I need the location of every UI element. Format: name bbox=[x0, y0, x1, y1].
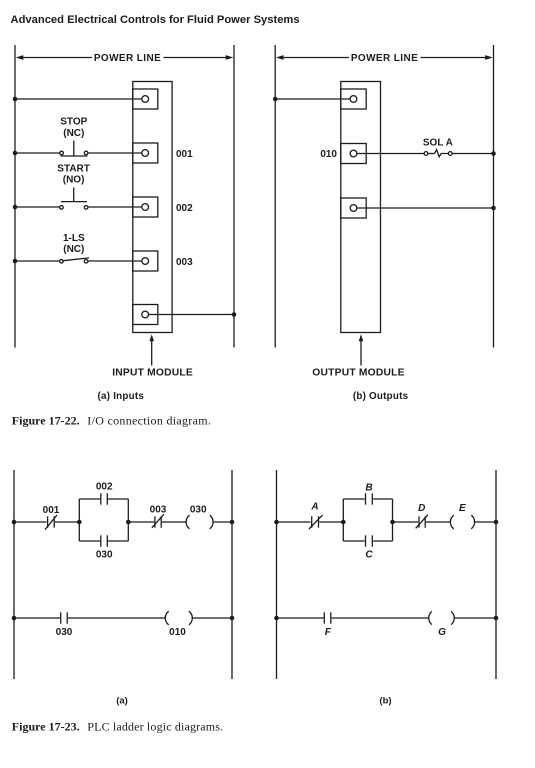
branch top wire right bbox=[108, 498, 128, 500]
terminal circle row0 bbox=[142, 96, 149, 103]
branch bottom wire right b bbox=[373, 540, 392, 542]
svg-text:001: 001 bbox=[176, 149, 193, 160]
junction dot branch right b bbox=[390, 520, 395, 525]
junction dot out1 bbox=[491, 151, 496, 156]
svg-text:(b): (b) bbox=[379, 696, 391, 707]
svg-text:1-LS: 1-LS bbox=[63, 233, 85, 244]
svg-text:003: 003 bbox=[150, 505, 167, 516]
parallel branch left vertical bbox=[78, 499, 80, 541]
left power rail L1 (b) bbox=[274, 45, 276, 348]
wire coil G to right rail bbox=[454, 617, 496, 619]
svg-text:010: 010 bbox=[320, 149, 337, 160]
junction dot row2 bbox=[13, 205, 18, 210]
branch top wire left bbox=[79, 498, 100, 500]
terminal box row4 bbox=[133, 305, 158, 325]
junction dot row4 bbox=[232, 312, 237, 317]
input module body bbox=[133, 82, 172, 333]
terminal circle row2 bbox=[142, 204, 149, 211]
svg-text:(a) Inputs: (a) Inputs bbox=[98, 391, 145, 402]
svg-text:010: 010 bbox=[169, 627, 186, 638]
svg-text:POWER LINE: POWER LINE bbox=[94, 53, 161, 64]
branch bottom wire right bbox=[108, 540, 128, 542]
terminal circle row4 bbox=[142, 311, 149, 318]
junction dot rung2 left bbox=[12, 616, 17, 621]
rung1 wire rail to contact 001 bbox=[14, 521, 47, 523]
branch bottom wire left b bbox=[343, 540, 364, 542]
terminal box row2 bbox=[133, 197, 158, 217]
svg-text:002: 002 bbox=[96, 482, 113, 493]
svg-text:D: D bbox=[418, 503, 425, 514]
svg-text:003: 003 bbox=[176, 257, 193, 268]
wire contact D to coil E bbox=[426, 521, 451, 523]
junction dot rung2 right bbox=[230, 616, 235, 621]
svg-text:(a): (a) bbox=[116, 696, 128, 707]
parallel branch left vertical b bbox=[342, 499, 344, 541]
wire terminal out1 to SOL A bbox=[357, 153, 424, 155]
svg-text:Figure 17-22.I/O connection di: Figure 17-22.I/O connection diagram. bbox=[12, 413, 211, 427]
junction dot rung1 left b bbox=[274, 520, 279, 525]
rung1 wire rail to contact A bbox=[277, 521, 311, 523]
wire coil E to right rail bbox=[474, 521, 496, 523]
svg-text:F: F bbox=[325, 627, 332, 638]
output coil G bbox=[429, 611, 454, 624]
wire contact 003 to coil 030 bbox=[162, 521, 187, 523]
wire coil 010 to right rail bbox=[192, 617, 232, 619]
svg-text:INPUT MODULE: INPUT MODULE bbox=[112, 368, 193, 379]
svg-text:A: A bbox=[310, 502, 318, 513]
wire contact 001 to branch bbox=[55, 521, 79, 523]
right power rail L2 bbox=[233, 45, 235, 348]
contact 001 (NC) bbox=[45, 515, 57, 530]
arrow to output module bbox=[359, 334, 364, 365]
wire branch to contact 003 bbox=[128, 521, 154, 523]
svg-text:SOL A: SOL A bbox=[423, 137, 453, 148]
junction dot rung2 right b bbox=[494, 616, 499, 621]
contact 030 (NO) rung2 bbox=[61, 612, 67, 623]
wire contact A to branch b bbox=[319, 521, 343, 523]
wire STOP contact to terminal row1 bbox=[88, 152, 141, 154]
terminal circle out1 bbox=[350, 150, 357, 157]
wire START contact to terminal row2 bbox=[88, 206, 141, 208]
svg-text:(NC): (NC) bbox=[63, 244, 84, 255]
junction dot branch right bbox=[126, 520, 131, 525]
junction dot out0 bbox=[273, 97, 278, 102]
svg-text:001: 001 bbox=[43, 505, 60, 516]
contact A (NC) bbox=[309, 515, 323, 529]
contact 030 branch (NO) bbox=[101, 535, 108, 546]
svg-text:030: 030 bbox=[56, 627, 73, 638]
terminal box row3 bbox=[133, 251, 158, 271]
svg-text:030: 030 bbox=[96, 550, 113, 561]
terminal circle out2 bbox=[350, 205, 357, 212]
rung2 wire rail to contact F bbox=[277, 617, 324, 619]
solenoid SOL A bbox=[424, 150, 452, 157]
svg-text:OUTPUT MODULE: OUTPUT MODULE bbox=[312, 368, 404, 379]
junction dot row1 bbox=[13, 151, 18, 156]
junction dot branch left b bbox=[341, 520, 346, 525]
wire rail to 1-LS contact bbox=[15, 260, 59, 262]
junction dot row3 bbox=[13, 259, 18, 264]
wire contact 030 to coil 010 bbox=[68, 617, 166, 619]
wire SOL A to right rail bbox=[452, 153, 493, 155]
wire contact F to coil G bbox=[332, 617, 429, 619]
junction dot branch left bbox=[77, 520, 82, 525]
svg-text:(b) Outputs: (b) Outputs bbox=[353, 391, 409, 402]
contact D (NC) bbox=[416, 515, 428, 529]
svg-text:STOP: STOP bbox=[60, 116, 87, 127]
junction dot rung1 right bbox=[230, 520, 235, 525]
svg-text:Advanced Electrical Controls f: Advanced Electrical Controls for Fluid P… bbox=[11, 14, 300, 26]
svg-text:E: E bbox=[459, 503, 466, 514]
junction dot rung1 right b bbox=[494, 520, 499, 525]
junction dot rung2 left b bbox=[274, 616, 279, 621]
svg-text:030: 030 bbox=[190, 505, 207, 516]
terminal circle row3 bbox=[142, 258, 149, 265]
terminal box out1 bbox=[341, 144, 366, 164]
wire branch to contact D bbox=[393, 521, 419, 523]
contact B (NO) bbox=[366, 493, 373, 504]
POWER LINE dimension line bbox=[16, 55, 234, 60]
ladder b left rail bbox=[276, 470, 278, 679]
parallel branch right vertical bbox=[127, 499, 129, 541]
ladder b right rail bbox=[495, 470, 497, 679]
terminal box row0 bbox=[133, 89, 158, 109]
wire rail to STOP contact bbox=[15, 152, 60, 154]
svg-text:Figure 17-23.PLC ladder logic: Figure 17-23.PLC ladder logic diagrams. bbox=[12, 720, 223, 734]
terminal box out0 bbox=[341, 89, 366, 109]
parallel branch right vertical b bbox=[392, 499, 394, 541]
wire terminal out2 to right rail bbox=[357, 207, 493, 209]
svg-text:002: 002 bbox=[176, 203, 193, 214]
branch bottom wire left bbox=[79, 540, 100, 542]
branch top wire left b bbox=[343, 498, 364, 500]
ladder a right rail bbox=[231, 470, 233, 679]
svg-text:(NC): (NC) bbox=[63, 128, 84, 139]
POWER LINE dimension line (b) bbox=[276, 55, 493, 60]
contact 002 (NO) bbox=[101, 493, 108, 504]
pushbutton START (NO) bbox=[60, 187, 88, 209]
output coil 010 bbox=[165, 611, 192, 625]
svg-text:(NO): (NO) bbox=[63, 175, 85, 186]
svg-text:B: B bbox=[365, 482, 372, 493]
rung2 wire rail to contact 030 bbox=[14, 617, 60, 619]
terminal box out2 bbox=[341, 198, 366, 218]
pushbutton STOP (NC) bbox=[60, 141, 88, 157]
output coil E bbox=[450, 515, 474, 529]
wire coil 030 to right rail bbox=[213, 521, 233, 523]
svg-text:START: START bbox=[57, 164, 90, 175]
limit switch 1-LS (NC) bbox=[60, 258, 89, 263]
left power rail L1 bbox=[14, 45, 16, 348]
wire 1-LS contact to terminal row3 bbox=[88, 260, 141, 262]
contact 003 (NC) bbox=[152, 514, 164, 528]
junction dot row0 bbox=[13, 97, 18, 102]
right power rail L2 (b) bbox=[493, 45, 495, 348]
wire rail to terminal row0 bbox=[15, 98, 142, 100]
junction dot rung1 left bbox=[12, 520, 17, 525]
wire left rail to terminal out0 bbox=[275, 98, 350, 100]
wire terminal row4 to right rail bbox=[149, 314, 234, 316]
contact C (NO) bbox=[366, 535, 373, 546]
terminal circle out0 bbox=[350, 96, 357, 103]
terminal circle row1 bbox=[142, 150, 149, 157]
contact F (NO) bbox=[324, 612, 331, 623]
output coil 030 bbox=[186, 515, 213, 529]
svg-text:C: C bbox=[365, 550, 373, 561]
svg-text:POWER LINE: POWER LINE bbox=[351, 53, 418, 64]
arrow to input module bbox=[149, 334, 154, 365]
junction dot out2 bbox=[491, 206, 496, 211]
wire rail to START contact bbox=[15, 206, 59, 208]
terminal box row1 bbox=[133, 143, 158, 163]
svg-text:G: G bbox=[438, 627, 446, 638]
output module body bbox=[341, 82, 381, 333]
ladder a left rail bbox=[13, 470, 15, 679]
branch top wire right b bbox=[373, 498, 392, 500]
